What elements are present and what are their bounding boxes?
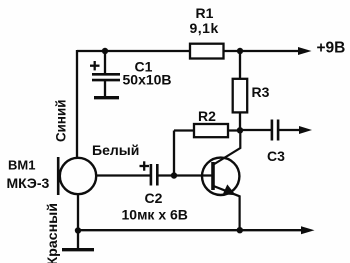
wire top rail +9V [77, 50, 300, 52]
svg-text:C2: C2 [145, 190, 163, 206]
wire R2 left drop to base node [173, 131, 175, 176]
wire left vertical (blue lead) [76, 50, 78, 159]
wire R2 horizontal [174, 129, 240, 131]
resistor R3 [233, 79, 248, 113]
node junction base [171, 172, 177, 178]
emitter arrow [223, 184, 236, 195]
ground (under C1) [94, 96, 119, 99]
svg-text:C3: C3 [267, 148, 285, 164]
transistor emitter [214, 186, 240, 230]
resistor R1 [190, 44, 224, 59]
transistor collector [214, 130, 241, 165]
wire C3 output arrow line [279, 129, 302, 131]
C2 plus sign [140, 161, 150, 170]
svg-text:МКЭ-3: МКЭ-3 [7, 175, 50, 191]
capacitor C1 [92, 74, 120, 80]
wire mic bottom (red lead) [77, 194, 79, 249]
arrow C3 output [299, 126, 312, 134]
svg-text:Синий: Синий [54, 100, 69, 142]
resistor R2 [194, 124, 228, 137]
svg-text:R3: R3 [252, 84, 270, 100]
svg-text:R1: R1 [196, 5, 214, 21]
svg-text:+9В: +9В [317, 40, 346, 57]
microphone BM1 circle [60, 158, 96, 194]
ground (under mic) [62, 248, 94, 251]
svg-text:9,1k: 9,1k [190, 20, 219, 36]
arrow +9V [298, 47, 312, 55]
svg-text:ВМ1: ВМ1 [8, 158, 35, 173]
wire bottom rail [78, 229, 301, 231]
node junction top R3 [237, 48, 243, 54]
wire node to C3 [240, 129, 271, 131]
wire C2 to base [158, 174, 212, 176]
node junction mic ground [75, 227, 81, 233]
node junction emitter rail [237, 227, 243, 233]
svg-text:10мк x 6В: 10мк x 6В [122, 207, 188, 223]
node junction R2/R3/C3 [237, 127, 243, 133]
microphone membrane bar [57, 157, 60, 195]
svg-text:Белый: Белый [92, 142, 139, 158]
capacitor C3 [272, 120, 278, 141]
wire mic to C2 [95, 174, 150, 176]
transistor base bar [211, 162, 215, 190]
capacitor C2 [151, 164, 157, 186]
C1 plus sign [90, 61, 100, 70]
wire R3 vertical branch [239, 51, 241, 131]
arrow bottom output [301, 226, 315, 234]
transistor Q1 [202, 158, 239, 195]
wire C1 to ground lead [104, 80, 106, 97]
wire C1 branch lead [104, 51, 106, 74]
svg-text:50x10В: 50x10В [123, 72, 172, 88]
svg-text:Красный: Красный [45, 203, 61, 263]
node junction top C1 [102, 48, 108, 54]
svg-text:R2: R2 [198, 108, 216, 124]
